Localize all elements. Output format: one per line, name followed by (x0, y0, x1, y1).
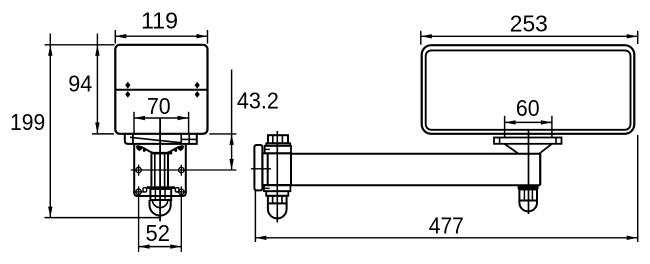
svg-text:94: 94 (68, 71, 92, 97)
svg-text:70: 70 (147, 93, 171, 119)
svg-text:253: 253 (510, 11, 548, 37)
svg-text:60: 60 (516, 95, 540, 121)
svg-text:199: 199 (10, 109, 45, 135)
svg-text:477: 477 (429, 212, 464, 238)
svg-text:52: 52 (146, 220, 170, 246)
svg-text:43.2: 43.2 (237, 88, 279, 114)
svg-text:119: 119 (141, 8, 178, 34)
